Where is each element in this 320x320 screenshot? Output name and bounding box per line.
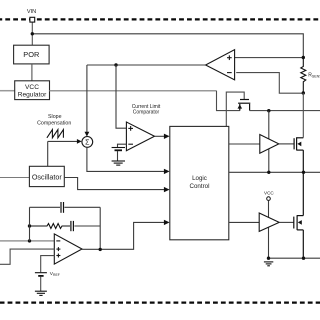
pin VIN square (30, 17, 35, 22)
buffer U8 high-side driver (260, 135, 279, 154)
svg-text:Comparator: Comparator (133, 110, 160, 116)
ground power ground symbol (264, 262, 273, 266)
wire slope compensation into summing junction (48, 140, 78, 142)
wire VCC regulator output to bootstrap switch (50, 90, 217, 92)
svg-text:VIN: VIN (27, 9, 36, 15)
node FB junction lower (28, 239, 31, 242)
svg-text:Compensation: Compensation (37, 120, 71, 126)
wire sense output down to summing junction (86, 65, 88, 133)
node PGND driver junction (267, 257, 270, 260)
wire battery to ground (117, 151, 119, 161)
node RSENSE top junction (302, 56, 305, 59)
wire VREF battery to ground (40, 277, 42, 291)
svg-text:Control: Control (190, 183, 210, 190)
wire VCC rail behind low-side driver (268, 200, 270, 258)
node SW FET junction (302, 171, 305, 174)
capacitor C1 (61, 202, 64, 213)
wire compensation left vertical (29, 207, 31, 241)
node FB junction upper (28, 224, 31, 227)
svg-text:POR: POR (23, 50, 39, 59)
node PGND FET junction (302, 257, 305, 260)
wire oscillator to logic control (64, 178, 164, 190)
ground below VREF (35, 291, 47, 295)
svg-text:VREF: VREF (50, 271, 60, 277)
svg-text:Oscillator: Oscillator (32, 172, 63, 181)
wire current sense amp + input (235, 57, 304, 59)
svg-text:Σ: Σ (85, 140, 90, 147)
wire RSENSE bottom to high-side FET drain (302, 93, 304, 138)
wire oscillator left pin (0, 177, 29, 179)
wire comparator output to logic control (155, 135, 165, 137)
wire logic to high-side driver (229, 143, 260, 145)
transistor Q2 low-side MOSFET (294, 172, 304, 258)
sawtooth slope compensation waveform (47, 130, 64, 138)
wire POR to VCC regulator (31, 64, 33, 81)
terminal VCC circle (267, 197, 271, 201)
node BST / driver rail junction (267, 109, 270, 112)
transistor Q1 high-side MOSFET (294, 137, 303, 172)
battery V1 current limit reference (112, 148, 125, 151)
wire bootstrap rail behind high-side driver (268, 111, 270, 173)
node COMP junction (99, 248, 102, 251)
transistor Q3 bootstrap switch (238, 100, 250, 111)
svg-text:Logic: Logic (192, 175, 207, 182)
IC boundary dashed bottom border (0, 302, 320, 304)
wire BST segment to right edge (250, 110, 320, 112)
wire sense output down to current limit comparator (116, 65, 126, 128)
op-amp U3 error amplifier (54, 234, 82, 264)
wire SS input (left edge) (0, 249, 54, 264)
wire compensation mid branch to output (74, 225, 100, 227)
wire VIN vertical into POR (31, 22, 33, 45)
wire VIN rail to RSENSE top (32, 34, 303, 58)
Logic Control U4 (170, 126, 229, 239)
wire VREF to error amp (41, 256, 55, 273)
node RSENSE bottom junction (302, 91, 305, 94)
wire current sense amp output (87, 64, 206, 66)
node VIN junction (31, 32, 34, 35)
wire VCC pin (left edge) (0, 90, 15, 92)
svg-text:Slope: Slope (48, 114, 62, 120)
node sense output junction (114, 63, 117, 66)
svg-text:RSENSE: RSENSE (308, 73, 320, 79)
Oscillator U7 (29, 166, 64, 186)
capacitor C2 (71, 221, 74, 231)
VCC Regulator U6 (15, 81, 50, 100)
wire SW node (229, 171, 320, 173)
node SW driver-rail junction (267, 171, 270, 174)
wire FB input (left edge) (0, 240, 54, 242)
op-amp U2 current limit comparator (126, 122, 154, 151)
svg-text:VCC: VCC (25, 84, 39, 91)
summing junction node (82, 137, 93, 148)
POR U5 (14, 45, 50, 64)
svg-text:VCC: VCC (264, 190, 274, 195)
wire slope compensation from oscillator (47, 141, 49, 166)
battery V2 VREF (35, 273, 47, 276)
resistor R1 compensation (30, 224, 71, 229)
transistor Q3 bootstrap switch gate wire from logic (226, 92, 244, 126)
IC boundary dashed top border (0, 18, 320, 20)
svg-text:Regulator: Regulator (18, 92, 47, 99)
resistor RSENSE (301, 58, 306, 94)
wire logic to low-side driver (229, 221, 259, 223)
wire comparator minus to reference battery (118, 144, 127, 147)
wire high-side driver output to gate (279, 143, 294, 145)
wire current sense amp - input (236, 73, 303, 94)
buffer U9 low-side driver (259, 213, 279, 231)
wire error amp output / COMP to logic control (82, 222, 165, 249)
wire PGND rail (269, 257, 320, 259)
wire summing junction output to logic control (87, 147, 165, 171)
wire low-side driver output to gate (279, 221, 294, 223)
wire compensation top branch (30, 206, 61, 208)
ground below current limit reference (112, 161, 125, 165)
wire VCC rail bend down to BST switch (217, 91, 240, 111)
wire compensation right vertical (99, 207, 101, 249)
op-amp U1 current sense amplifier (206, 50, 235, 80)
